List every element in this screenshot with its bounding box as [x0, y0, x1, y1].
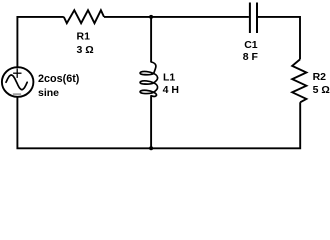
voltage source V1 value label 2cos(6t): [38, 73, 80, 85]
resistor R1 reference label: [77, 31, 91, 43]
voltage source V1 type label sine: [38, 87, 59, 99]
node B junction dot (bottom middle): [149, 146, 153, 150]
wire from C1 right plate to top-right corner down to R2 top terminal: [258, 17, 300, 60]
inductor L1 reference label: [163, 71, 175, 83]
wire from R2 bottom terminal down right side along bottom to source bottom: [17, 97, 300, 148]
resistor R1 value label 3 ohm: [77, 44, 94, 56]
resistor R2 reference label: [313, 71, 327, 83]
svg-text:C1: C1: [244, 39, 258, 51]
svg-text:2cos(6t): 2cos(6t): [38, 73, 80, 85]
voltage source V1 sine waveform: [6, 75, 27, 90]
svg-text:5 Ω: 5 Ω: [313, 84, 330, 96]
wire from R1 right terminal through node A to C1 left plate: [104, 16, 249, 18]
inductor L1: [140, 62, 157, 97]
svg-text:8 F: 8 F: [243, 51, 259, 63]
svg-text:R2: R2: [313, 71, 327, 83]
resistor R2 value label 5 ohm: [313, 84, 330, 96]
svg-text:L1: L1: [163, 71, 175, 83]
capacitor C1 value label 8 F: [243, 51, 259, 63]
svg-text:3 Ω: 3 Ω: [77, 44, 94, 56]
capacitor C1 reference label: [244, 39, 258, 51]
capacitor C1 left plate: [249, 3, 251, 34]
voltage source V1 plus polarity mark: [13, 68, 21, 78]
svg-text:4 H: 4 H: [163, 84, 179, 96]
inductor L1 value label 4 H: [163, 84, 179, 96]
svg-text:sine: sine: [38, 87, 59, 99]
capacitor C1 right plate: [256, 3, 258, 34]
resistor R1: [64, 10, 104, 23]
wire middle branch from L1 bottom terminal down to node B: [150, 96, 152, 149]
wire from source top up left side and along top to R1 left terminal: [17, 17, 63, 68]
node A junction dot (top middle): [149, 15, 153, 19]
voltage source V1 minus polarity mark: [13, 93, 21, 95]
wire middle branch from node A down to L1 top terminal: [150, 17, 152, 62]
resistor R2: [292, 59, 306, 102]
voltage source V1 body: [2, 67, 34, 97]
svg-text:R1: R1: [77, 31, 91, 43]
